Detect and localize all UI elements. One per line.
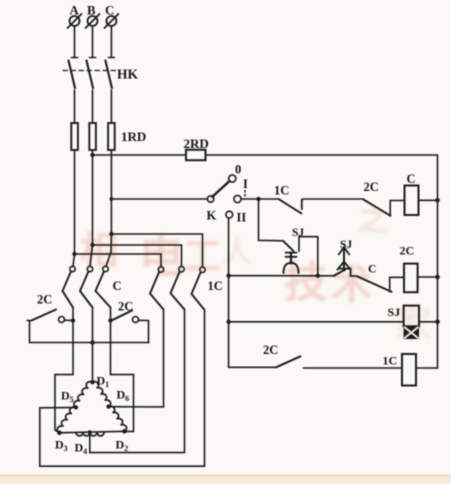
svg-text:2C: 2C — [364, 180, 379, 194]
contactor 1C pole 3 — [192, 267, 206, 310]
wire phase C drop to switch — [110, 26, 112, 57]
terminal C — [104, 14, 118, 28]
svg-text:2C: 2C — [400, 244, 415, 258]
wire I contact to row1 — [241, 198, 279, 200]
svg-text:SJ: SJ — [340, 239, 352, 251]
coil C — [405, 186, 419, 216]
wire row4 to coil 1C — [304, 367, 403, 369]
wire star right drop — [148, 321, 150, 343]
label I — [243, 177, 248, 191]
svg-text:0: 0 — [235, 163, 241, 177]
svg-text:II: II — [237, 211, 247, 225]
junction dot star bus B — [90, 340, 95, 345]
svg-text:C: C — [368, 264, 376, 276]
label HK — [117, 67, 139, 82]
contact 2C row4 blade — [276, 356, 301, 367]
label 2RD — [184, 136, 209, 151]
svg-text:I: I — [243, 177, 248, 191]
wire row3 bus — [229, 321, 404, 323]
wire A fuse down to contactor — [74, 150, 76, 255]
wire 1C pole1 output to D6 — [110, 310, 164, 407]
coil 2C — [404, 264, 418, 293]
label 1C coil — [383, 354, 398, 368]
contactor C pole B — [80, 266, 93, 307]
wire 2RD to right rail — [206, 154, 438, 156]
wire coil C to rail — [419, 199, 438, 201]
node D2 dot — [122, 429, 127, 434]
label 2C star left — [37, 293, 52, 307]
svg-text:C: C — [407, 172, 416, 186]
label C coil — [407, 172, 416, 186]
wire C blade to coil 2C — [390, 277, 404, 292]
junction dot bus left rail row2 — [226, 274, 230, 278]
wire right rail — [437, 155, 439, 368]
svg-text:之: 之 — [358, 203, 388, 237]
wire B feed into contactor C — [90, 245, 93, 266]
fuse 2RD — [186, 150, 206, 160]
wire row2 between — [350, 269, 352, 276]
label II — [237, 211, 247, 225]
wire C switch to fuse — [110, 90, 112, 123]
svg-text:1RD: 1RD — [121, 129, 146, 144]
label D3 — [55, 438, 68, 454]
wire C output to D2 — [111, 375, 134, 432]
wire C feed into contactor C — [106, 234, 111, 266]
contactor C pole A — [63, 266, 76, 307]
label SJ coil — [388, 305, 401, 319]
wire left rail — [228, 218, 230, 367]
wire A output to D3 — [55, 343, 73, 433]
selector I indicator dots — [244, 191, 246, 197]
wire A switch to fuse — [74, 90, 76, 123]
label D2 — [116, 438, 129, 454]
wire row1 mid — [303, 198, 364, 200]
svg-text:2C: 2C — [118, 300, 133, 314]
node D3 dot — [57, 431, 62, 436]
terminal A — [68, 14, 82, 28]
wire phase A drop to switch — [74, 26, 76, 57]
bottom page band — [0, 474, 451, 484]
junction dot C branch — [109, 232, 113, 236]
svg-text:HK: HK — [117, 67, 139, 82]
wire coil 1C to rail — [416, 367, 438, 369]
fuse 1RD pole C — [108, 123, 115, 150]
label D1 — [97, 374, 110, 390]
wire control top to 2RD — [93, 154, 187, 156]
svg-text:1C: 1C — [274, 184, 289, 198]
label SJ row2 right — [340, 239, 352, 251]
selector K contact II — [226, 211, 233, 218]
label 1C contactor — [208, 279, 223, 293]
selector switch K common — [207, 196, 213, 202]
svg-text:2RD: 2RD — [184, 136, 209, 151]
wire 1C pole2 output to D4 — [90, 310, 185, 453]
contactor C pole C — [96, 266, 111, 307]
svg-text:K: K — [207, 209, 217, 223]
motor winding bottom — [76, 432, 104, 436]
junction dot rail row2 — [435, 275, 440, 280]
wire coil 2C to rail — [418, 276, 438, 278]
selector K contact I — [234, 195, 241, 202]
label 1RD — [121, 129, 146, 144]
svg-text:2C: 2C — [37, 293, 52, 307]
junction dot rail row1 — [435, 198, 440, 203]
timer contact SJ2 blade — [334, 269, 346, 276]
label 2C row4 — [263, 343, 278, 357]
wire row2 bus left — [229, 275, 335, 277]
wire 2C blade to coil C — [390, 201, 404, 216]
svg-text:C: C — [113, 279, 122, 293]
HK linkage dashed — [63, 70, 117, 72]
knife switch HK pole A — [69, 58, 78, 89]
selector K blade — [212, 181, 229, 197]
wire B switch to fuse — [92, 90, 94, 123]
fuse 1RD pole A — [71, 123, 78, 150]
node C label — [105, 4, 114, 18]
terminal B — [86, 14, 100, 28]
junction dot row1 — [256, 197, 260, 201]
selector K contact 0 — [229, 175, 236, 182]
timer SJ dashpot symbol — [284, 253, 299, 273]
motor winding D1-D5 left side — [57, 382, 92, 433]
label C contactor — [113, 279, 122, 293]
wire B fuse down to contactor — [92, 150, 94, 246]
wire C to selector K — [111, 198, 207, 200]
wire C branch to 1C pole3 — [111, 234, 202, 267]
junction dot left rail row3 — [226, 320, 230, 324]
contact C row2 blade — [358, 277, 392, 292]
contact 1C row1 blade — [279, 199, 302, 213]
contact 2C star right — [112, 311, 149, 323]
wire SJ coil to rail — [419, 321, 438, 323]
wire motor bottom bar — [59, 431, 126, 433]
red watermark text — [80, 203, 431, 344]
svg-text:相: 相 — [80, 231, 118, 273]
label 2C row1 — [364, 180, 379, 194]
wire C output down — [110, 308, 112, 375]
junction dot rail row3 — [435, 320, 440, 325]
wire B output down to D1 — [92, 308, 94, 383]
junction dot A branch — [72, 252, 76, 256]
label 0 — [235, 163, 241, 177]
knife switch HK pole C — [105, 58, 114, 89]
node A label — [70, 4, 80, 18]
wire star bus — [30, 342, 149, 344]
wire A branch to 1C pole1 — [75, 254, 162, 267]
relay coil SJ box — [404, 306, 419, 327]
label D6 — [117, 388, 130, 404]
junction dot SJ jog — [316, 274, 320, 278]
label 2C coil — [400, 244, 415, 258]
motor winding D1-D6 right side — [93, 382, 127, 432]
node D4 dot — [88, 430, 92, 434]
contact 1C row1 fixed stub — [301, 200, 303, 210]
contactor 1C pole 2 — [171, 267, 185, 310]
wire C fuse down to contactor — [110, 150, 112, 235]
svg-text:技: 技 — [284, 259, 327, 307]
node D1 apex dot — [90, 380, 94, 384]
svg-text:1C: 1C — [383, 354, 398, 368]
coil 1C — [402, 354, 416, 386]
knife switch HK pole B — [87, 58, 96, 89]
junction dot C selector tap — [110, 197, 114, 201]
junction dot 2C right on C output — [108, 318, 112, 322]
label SJ row2 left — [292, 227, 304, 239]
contact 2C star left — [27, 310, 73, 323]
timer contact SJ2 bridge bar — [340, 268, 351, 270]
node D5 dot — [74, 405, 78, 409]
wire A feed into contactor C — [73, 254, 75, 266]
contactor 1C pole 1 — [150, 267, 164, 310]
label 1C row1 — [274, 184, 289, 198]
junction dot B control tap — [90, 153, 94, 157]
wire SJ fixed side jog — [299, 237, 318, 276]
wire star left drop — [29, 321, 31, 343]
wire row4 bus left — [229, 366, 276, 368]
timer contact SJ blade — [283, 241, 294, 251]
contact 2C row1 blade — [364, 200, 391, 216]
timer contact SJ2 arrow symbol — [337, 247, 350, 270]
node B label — [87, 4, 96, 18]
label D4 — [75, 441, 88, 457]
fuse 1RD pole B — [89, 123, 96, 150]
label K — [207, 209, 217, 223]
junction dot B branch — [90, 243, 94, 247]
wire A output down — [72, 308, 74, 343]
node D6 dot — [106, 405, 110, 409]
svg-text:SJ: SJ — [388, 305, 401, 319]
svg-text:1C: 1C — [208, 279, 223, 293]
label D5 — [61, 389, 74, 405]
svg-text:2C: 2C — [263, 343, 278, 357]
wire phase B drop to switch — [92, 26, 94, 57]
wire B branch to 1C pole2 — [93, 245, 182, 266]
wire branch down to SJ contact — [259, 199, 284, 241]
label 2C star right — [118, 300, 133, 314]
relay SJ lower box with X — [404, 326, 419, 339]
label C row2 — [368, 264, 376, 276]
svg-text:人: 人 — [222, 236, 252, 269]
junction dot 2C left on A output — [71, 318, 75, 322]
wire 1C pole3 output to D5 — [40, 310, 205, 466]
